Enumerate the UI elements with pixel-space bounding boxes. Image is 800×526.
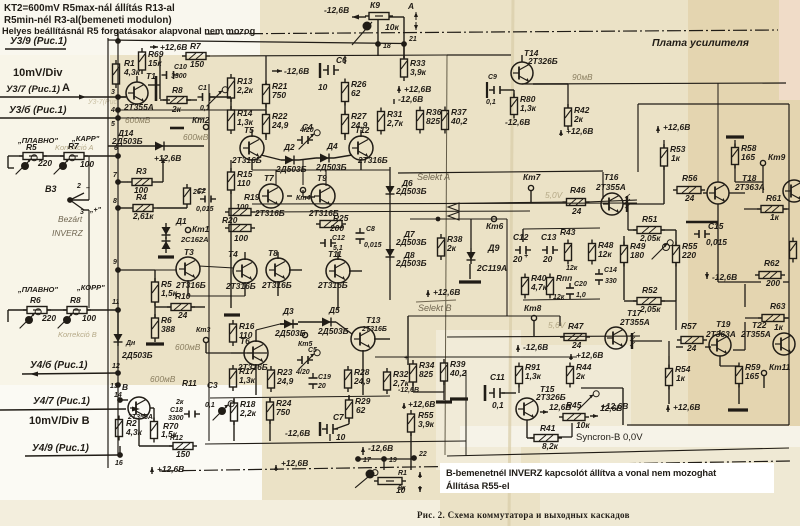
wire connector bus <box>117 41 119 455</box>
svg-text:150: 150 <box>190 59 204 69</box>
svg-text:220: 220 <box>41 313 56 323</box>
wire <box>118 96 126 98</box>
resistor R9 <box>184 184 191 208</box>
svg-text:90мВ: 90мВ <box>572 72 593 82</box>
svg-text:С11: С11 <box>490 372 505 382</box>
node 13 <box>115 382 121 388</box>
svg-text:-12,6В: -12,6В <box>284 66 309 76</box>
node 21 <box>401 41 407 47</box>
svg-text:+: + <box>404 355 408 362</box>
diode column <box>386 182 395 198</box>
svg-text:2Д503Б: 2Д503Б <box>395 186 427 196</box>
svg-text:С20: С20 <box>574 281 587 288</box>
ground <box>146 342 164 345</box>
transistor T17 <box>605 327 627 349</box>
resistor R55 220 <box>673 242 680 267</box>
ground <box>728 408 748 411</box>
svg-text:Д2: Д2 <box>283 142 295 152</box>
node КТ11 <box>761 370 766 375</box>
resistor R24 <box>267 398 274 424</box>
node 22 <box>411 455 417 461</box>
svg-text:110: 110 <box>237 178 251 188</box>
capacitor C14 <box>595 269 603 285</box>
svg-text:388: 388 <box>161 324 175 334</box>
transistor T12 <box>349 136 373 160</box>
resistor R7 100 <box>60 153 88 160</box>
svg-text:14: 14 <box>114 392 122 399</box>
wire <box>118 207 129 209</box>
svg-text:2Т326Б: 2Т326Б <box>535 392 566 402</box>
svg-text:У4/б (Рис.1): У4/б (Рис.1) <box>30 359 88 371</box>
wire collector rail 90mV <box>522 83 786 84</box>
resistor R27 <box>342 111 349 138</box>
capacitor C13 <box>542 246 558 254</box>
node 14 <box>117 397 123 403</box>
wire long rail <box>205 441 466 444</box>
label +12,6В <box>397 86 401 93</box>
wire <box>233 421 235 441</box>
label +12,6В <box>274 465 278 471</box>
capacitor C2 <box>200 196 216 203</box>
svg-text:1,3к: 1,3к <box>520 103 537 113</box>
resistor R41 <box>530 435 562 442</box>
svg-text:2,05к: 2,05к <box>639 304 661 314</box>
svg-text:40,2: 40,2 <box>449 368 467 378</box>
svg-text:2,7к: 2,7к <box>386 118 404 128</box>
svg-text:R1: R1 <box>398 470 407 477</box>
wire <box>403 43 405 58</box>
svg-text:3,9к: 3,9к <box>410 67 427 77</box>
svg-text:10mV/Div B: 10mV/Div B <box>29 415 90 427</box>
resistor R17 <box>230 365 237 391</box>
trimmer capacitor 4/20 <box>297 136 313 144</box>
svg-text:24: 24 <box>177 310 188 320</box>
svg-text:С5: С5 <box>308 347 317 354</box>
wire <box>118 181 128 183</box>
svg-text:С15: С15 <box>708 221 724 231</box>
svg-text:Т9: Т9 <box>317 173 327 183</box>
svg-text:2,2к: 2,2к <box>239 408 257 418</box>
svg-text:Т3: Т3 <box>184 247 194 257</box>
wire box selekt <box>408 315 560 317</box>
resistor R20 <box>225 225 255 232</box>
wire <box>120 399 128 401</box>
svg-text:165: 165 <box>745 371 759 381</box>
resistor R37 <box>442 107 449 134</box>
transistor T13 <box>351 327 375 351</box>
svg-text:2Т316Б: 2Т316Б <box>231 155 262 165</box>
svg-text:0,015: 0,015 <box>196 206 214 213</box>
diode Д4 <box>316 154 334 163</box>
svg-text:С2: С2 <box>197 188 206 195</box>
svg-text:Рис. 2. Схема коммутатора и в: Рис. 2. Схема коммутатора и выходных кас… <box>417 510 630 520</box>
svg-text:У3/7 (Рис.1): У3/7 (Рис.1) <box>6 84 60 95</box>
svg-text:2Т316Б: 2Т316Б <box>225 281 256 291</box>
wire <box>410 432 412 470</box>
svg-text:+12,6В: +12,6В <box>157 464 184 474</box>
svg-text:11: 11 <box>112 299 119 306</box>
wire <box>0 117 118 119</box>
resistor R4 <box>129 205 157 212</box>
wire main rail y55 <box>210 55 447 56</box>
wire <box>118 117 205 119</box>
svg-text:+12,6В: +12,6В <box>281 458 308 468</box>
resistor R57 <box>677 337 707 344</box>
node 3 <box>115 94 121 100</box>
svg-text:Syncron-B 0,0V: Syncron-B 0,0V <box>576 432 643 443</box>
wire <box>118 269 177 271</box>
resistor R3 <box>128 179 156 186</box>
svg-text:Т8: Т8 <box>268 248 278 258</box>
resistor R1 <box>113 60 120 88</box>
svg-text:R47: R47 <box>568 321 584 331</box>
svg-text:1,0: 1,0 <box>576 292 586 299</box>
svg-text:8,2к: 8,2к <box>542 441 559 451</box>
node 4 <box>115 107 121 113</box>
svg-text:R6: R6 <box>30 295 41 305</box>
transistor T14 <box>511 62 533 84</box>
svg-text:2Т355А: 2Т355А <box>619 317 650 327</box>
node 5 <box>115 115 121 121</box>
node КТ8 <box>531 315 536 320</box>
wire <box>154 302 156 318</box>
svg-text:2Т316Б: 2Т316Б <box>175 280 206 290</box>
svg-text:Кт3: Кт3 <box>196 327 211 334</box>
svg-text:Дн: Дн <box>125 340 136 347</box>
svg-text:3300: 3300 <box>168 415 184 422</box>
diode Д к 11 <box>117 310 119 330</box>
resistor R91 <box>516 363 523 388</box>
wire module border left <box>107 38 109 300</box>
svg-text:Т13: Т13 <box>366 315 381 325</box>
wire <box>265 83 267 85</box>
svg-text:С12: С12 <box>513 232 529 242</box>
svg-text:Selekt A: Selekt A <box>417 172 450 182</box>
svg-text:R11: R11 <box>182 378 197 388</box>
svg-text:0,1: 0,1 <box>200 105 210 112</box>
wire <box>160 99 170 101</box>
node КТ5 <box>302 332 307 337</box>
resistor R6 388 <box>152 314 159 342</box>
svg-text:5: 5 <box>111 121 115 128</box>
node КТ3 <box>203 337 208 342</box>
svg-text:С18: С18 <box>170 407 183 414</box>
resistor R45 <box>559 414 589 421</box>
note box white background <box>440 463 774 493</box>
wire <box>230 191 232 308</box>
resistor R56 <box>673 187 705 194</box>
svg-text:100: 100 <box>236 202 249 211</box>
svg-text:С3: С3 <box>207 380 218 390</box>
svg-text:Т16: Т16 <box>604 172 619 182</box>
svg-text:4,3к: 4,3к <box>125 427 143 437</box>
svg-text:Кт6: Кт6 <box>486 221 504 231</box>
svg-text:Кт11: Кт11 <box>769 362 791 372</box>
svg-text:2к: 2к <box>575 371 586 381</box>
svg-text:9к: 9к <box>398 485 406 492</box>
node 8 <box>115 205 121 211</box>
resistor R48 <box>589 240 596 265</box>
svg-text:2,61к: 2,61к <box>132 211 154 221</box>
svg-text:Т4: Т4 <box>228 249 238 259</box>
label +12,6В <box>402 403 406 409</box>
svg-text:2Т316Б: 2Т316Б <box>254 208 285 218</box>
resistor R70 12к <box>547 274 554 299</box>
ground <box>726 135 744 138</box>
svg-text:750: 750 <box>272 90 286 100</box>
svg-text:220: 220 <box>681 250 696 260</box>
resistor R42 <box>565 104 572 130</box>
svg-text:R8: R8 <box>70 295 81 305</box>
svg-text:200: 200 <box>329 223 344 233</box>
wire network top <box>523 228 600 229</box>
svg-text:R10: R10 <box>175 291 191 301</box>
transistor T20 <box>783 180 800 202</box>
svg-text:10к: 10к <box>576 420 590 430</box>
label +12,6В <box>656 126 660 133</box>
resistor R21 <box>263 81 270 108</box>
svg-text:-12,6В: -12,6В <box>368 443 393 453</box>
base hatch T17 <box>631 333 633 349</box>
svg-text:R3: R3 <box>136 166 147 176</box>
resistor R47 <box>560 334 590 341</box>
node КТ9 <box>760 160 765 165</box>
svg-text:24: 24 <box>571 206 582 216</box>
wire <box>261 155 281 160</box>
svg-text:С9: С9 <box>488 74 497 81</box>
svg-text:Állítása R55-el: Állítása R55-el <box>446 481 510 491</box>
svg-text:С1: С1 <box>198 85 207 92</box>
label -12,6В rail <box>272 69 282 73</box>
svg-text:20: 20 <box>317 383 326 390</box>
node КТ4 <box>300 187 305 192</box>
trimmer capacitor C5 <box>297 356 313 364</box>
svg-text:2Д503Б: 2Д503Б <box>395 258 427 268</box>
resistor R54 <box>666 365 673 390</box>
resistor R19 <box>225 209 255 216</box>
diode Д5 <box>318 318 336 327</box>
svg-text:-12,6В: -12,6В <box>505 117 530 127</box>
svg-text:3: 3 <box>111 89 115 96</box>
svg-text:В: В <box>122 382 128 392</box>
svg-text:С19: С19 <box>318 374 331 381</box>
svg-text:24: 24 <box>571 340 582 350</box>
svg-text:2С119А: 2С119А <box>476 263 507 273</box>
wire switch to bus <box>84 209 89 211</box>
resistor R6 220 <box>23 307 51 314</box>
svg-text:R25: R25 <box>333 213 349 223</box>
svg-text:10mV/Div: 10mV/Div <box>13 67 63 79</box>
label +12,6В <box>426 290 430 297</box>
svg-text:R5min-nél R3-al(bemeneti modul: R5min-nél R3-al(bemeneti modulon) <box>4 15 172 26</box>
svg-text:R7: R7 <box>190 41 201 51</box>
svg-text:24: 24 <box>684 193 695 203</box>
chassis border bottom dash-dot <box>160 461 790 471</box>
wire <box>377 20 379 44</box>
svg-text:Т19: Т19 <box>716 319 731 329</box>
svg-text:20: 20 <box>542 254 553 264</box>
transistor T5 <box>240 136 264 160</box>
svg-text:12к: 12к <box>553 294 565 301</box>
svg-text:R41: R41 <box>540 423 556 433</box>
svg-text:0,1: 0,1 <box>486 99 496 106</box>
transistor T6 <box>244 341 268 365</box>
label +12,6В <box>161 158 165 166</box>
capacitor C6 <box>323 65 339 75</box>
svg-text:R62: R62 <box>764 258 780 268</box>
resistor R49 <box>621 242 628 267</box>
wire top rail <box>108 40 404 44</box>
svg-text:330: 330 <box>605 278 617 285</box>
svg-text:10к: 10к <box>385 22 399 32</box>
transistor T3 <box>176 257 200 281</box>
svg-text:R46: R46 <box>570 185 586 195</box>
resistor R33 <box>401 55 408 81</box>
capacitor C7 <box>322 424 338 434</box>
svg-text:+12,6В: +12,6В <box>154 153 181 163</box>
svg-text:Bezárt: Bezárt <box>58 214 83 224</box>
label +12,6В <box>666 405 670 412</box>
svg-text:А: А <box>407 1 414 11</box>
svg-text:200: 200 <box>765 278 780 288</box>
svg-text:INVERZ: INVERZ <box>52 228 84 238</box>
capacitor C1 <box>198 93 215 101</box>
resistor R55 3,9k <box>408 410 415 436</box>
resistor R14 <box>228 106 235 134</box>
svg-text:5,1: 5,1 <box>333 245 343 252</box>
svg-text:R8: R8 <box>172 85 183 95</box>
resistor R80 <box>511 94 518 119</box>
svg-text:Korrekció B: Korrekció B <box>58 330 97 339</box>
wire <box>8 309 27 311</box>
svg-text:С12: С12 <box>332 235 345 242</box>
capacitor C12 5,1 <box>320 239 336 247</box>
svg-text:„+": „+" <box>89 207 102 214</box>
svg-text:4,7к: 4,7к <box>530 282 548 292</box>
svg-text:0,015: 0,015 <box>364 242 382 249</box>
capacitor C12 20 <box>515 246 531 254</box>
ground <box>450 397 468 400</box>
svg-text:2Т355А: 2Т355А <box>595 182 626 192</box>
svg-text:2Т316Б: 2Т316Б <box>361 326 387 333</box>
wire rail y398 <box>210 396 390 398</box>
svg-text:У3/б (Рис.1): У3/б (Рис.1) <box>9 104 67 116</box>
svg-text:KT2=600mV R5max-nál állítás R: KT2=600mV R5max-nál állítás R13-al <box>4 3 175 14</box>
chassis border dash-dot <box>205 30 778 34</box>
node 7 <box>115 179 121 185</box>
trimmer R5 <box>16 155 38 175</box>
svg-text:2Т316Б: 2Т316Б <box>317 280 348 290</box>
wire <box>230 109 266 111</box>
resistor R36 <box>417 107 424 134</box>
switch arrows bottom <box>418 472 422 478</box>
svg-text:+12,6В: +12,6В <box>160 42 187 52</box>
resistor R29 <box>346 396 353 422</box>
svg-text:Плата усилителя: Плата усилителя <box>652 37 749 49</box>
resistor R5 220 <box>19 153 47 160</box>
resistor R7 150 <box>182 53 210 60</box>
resistor R46 <box>563 199 590 206</box>
svg-text:2Т363А: 2Т363А <box>734 182 765 192</box>
svg-text:2Т326Б: 2Т326Б <box>527 56 558 66</box>
svg-text:2,2к: 2,2к <box>236 85 254 95</box>
svg-text:21: 21 <box>408 36 417 43</box>
svg-text:12к: 12к <box>598 249 612 259</box>
resistor R10 <box>167 304 195 311</box>
wire <box>465 370 467 456</box>
svg-text:5,6V: 5,6V <box>548 320 567 330</box>
wire <box>118 109 230 111</box>
svg-text:2: 2 <box>76 183 81 190</box>
svg-text:4/20: 4/20 <box>295 369 310 376</box>
capacitor C20 <box>566 283 574 299</box>
resistor R15 <box>228 168 235 194</box>
svg-text:-12,6В: -12,6В <box>324 5 349 15</box>
capacitor C11 <box>489 388 505 398</box>
svg-text:С10: С10 <box>174 64 187 71</box>
resistor Rттот <box>374 478 406 485</box>
label +12,6В <box>150 467 154 474</box>
transistor T8 <box>266 258 290 282</box>
svg-text:Д4: Д4 <box>326 141 338 151</box>
svg-text:100: 100 <box>234 233 248 243</box>
svg-text:Т7: Т7 <box>264 173 274 183</box>
diode Д3 <box>280 320 298 329</box>
svg-text:5,0V: 5,0V <box>545 190 564 200</box>
svg-text:2С162А: 2С162А <box>180 235 209 244</box>
svg-text:У3-7(Рис: У3-7(Рис <box>87 99 117 106</box>
svg-text:2к: 2к <box>573 114 584 124</box>
resistor R50 <box>790 238 797 263</box>
transistor T19 <box>709 334 731 356</box>
node 16 <box>117 452 123 458</box>
svg-text:У3/9 (Рис.1): У3/9 (Рис.1) <box>10 36 67 47</box>
svg-text:100: 100 <box>82 313 96 323</box>
svg-text:62: 62 <box>356 405 366 415</box>
svg-text:2Д503Б: 2Д503Б <box>275 164 307 174</box>
svg-text:1к: 1к <box>676 373 686 383</box>
trimmer arrow C1 <box>207 87 229 107</box>
resistor R22 <box>263 111 270 138</box>
svg-text:750: 750 <box>276 407 290 417</box>
node 12 <box>115 370 121 376</box>
transistor T1 <box>126 82 148 104</box>
resistor R8 <box>163 97 191 104</box>
resistor R26 <box>342 79 349 106</box>
node КТ2 <box>192 115 210 130</box>
label 12,6В <box>540 410 548 414</box>
svg-text:Кт7: Кт7 <box>523 172 541 182</box>
transistor T2 <box>128 397 150 419</box>
capacitor C9 <box>489 86 505 94</box>
svg-text:+12,6В: +12,6В <box>433 287 460 297</box>
base hatch T16 <box>626 196 628 212</box>
svg-text:R63: R63 <box>770 301 786 311</box>
svg-text:1,3к: 1,3к <box>239 375 256 385</box>
svg-text:6: 6 <box>114 145 118 152</box>
svg-text:180: 180 <box>630 250 644 260</box>
wire arrow bus <box>448 203 459 211</box>
svg-text:С13: С13 <box>541 232 557 242</box>
svg-text:+12,6В: +12,6В <box>576 350 603 360</box>
resistor R69 <box>139 48 146 74</box>
svg-text:1к: 1к <box>671 153 681 163</box>
wire <box>22 373 118 374</box>
svg-text:24,9: 24,9 <box>353 376 371 386</box>
wire <box>8 155 23 157</box>
resistor R5 1,5k <box>152 278 159 306</box>
svg-text:150: 150 <box>176 449 190 459</box>
